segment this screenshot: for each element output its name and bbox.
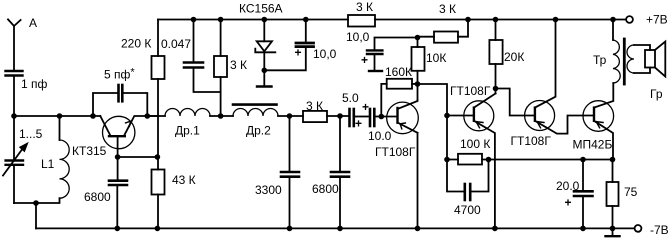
svg-text:43 К: 43 К (172, 173, 196, 187)
svg-text:+: + (565, 196, 572, 210)
svg-text:3 К: 3 К (356, 0, 373, 14)
svg-text:МП42Б: МП42Б (573, 138, 613, 152)
svg-text:75: 75 (624, 185, 638, 199)
svg-text:+: + (355, 117, 362, 131)
svg-text:6800: 6800 (84, 190, 111, 204)
svg-text:ГТ108Г: ГТ108Г (511, 134, 552, 148)
svg-text:+: + (362, 100, 369, 114)
svg-text:5.0: 5.0 (342, 91, 359, 105)
svg-text:20К: 20К (504, 50, 524, 64)
svg-text:10К: 10К (426, 51, 446, 65)
svg-text:6800: 6800 (312, 182, 339, 196)
svg-text:160К: 160К (385, 65, 412, 79)
svg-text:1 пф: 1 пф (21, 77, 48, 91)
svg-text:3 К: 3 К (306, 99, 323, 113)
svg-text:А: А (29, 16, 37, 30)
svg-text:+: + (295, 46, 302, 60)
svg-text:Др.2: Др.2 (246, 124, 271, 138)
svg-text:10,0: 10,0 (346, 30, 370, 44)
svg-text:+7В: +7В (646, 13, 668, 27)
svg-text:3 К: 3 К (439, 2, 456, 16)
svg-text:Гр: Гр (650, 87, 663, 101)
svg-text:L1: L1 (41, 157, 55, 171)
svg-text:0.047: 0.047 (161, 37, 191, 51)
svg-text:КТ315: КТ315 (72, 144, 107, 158)
svg-text:Др.1: Др.1 (175, 124, 200, 138)
svg-text:ГТ108Г: ГТ108Г (450, 84, 491, 98)
svg-text:4700: 4700 (454, 203, 481, 217)
svg-text:ГТ108Г: ГТ108Г (375, 145, 416, 159)
svg-text:100 К: 100 К (460, 137, 490, 151)
svg-text:+: + (361, 53, 368, 67)
svg-text:10,0: 10,0 (313, 47, 337, 61)
svg-text:220 К: 220 К (121, 37, 151, 51)
svg-text:-7В: -7В (650, 223, 669, 237)
svg-text:3 К: 3 К (230, 58, 247, 72)
svg-text:20.0: 20.0 (556, 179, 580, 193)
svg-text:1...5: 1...5 (19, 127, 43, 141)
svg-text:КС156А: КС156А (239, 2, 283, 16)
svg-text:Тр: Тр (593, 53, 607, 67)
svg-text:10.0: 10.0 (368, 129, 392, 143)
svg-text:3300: 3300 (255, 183, 282, 197)
